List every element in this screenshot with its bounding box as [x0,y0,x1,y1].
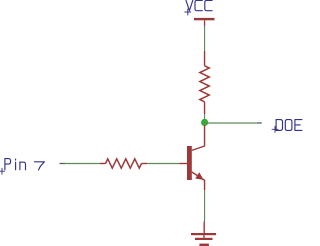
resistor R1 [200,51,209,114]
transistor Q1 [180,125,205,190]
wire R2 to Q1 base [147,163,180,165]
wire Q1 emitter to ground [204,190,206,222]
node junction dot [201,119,208,126]
node Pin 7 label [0,159,44,175]
ground symbol [191,222,216,246]
wire VCC to R1 [204,26,206,51]
node VCC label [185,0,212,15]
node DOE label [272,120,302,133]
wire Pin7 to R2 [65,163,100,165]
power VCC symbol [194,18,215,26]
pin stub at Pin7 label [60,163,66,165]
resistor R2 [100,159,147,168]
wire node to DOE [205,122,257,124]
wire R1 to node [204,114,206,120]
pin stub at DOE label [257,122,262,124]
